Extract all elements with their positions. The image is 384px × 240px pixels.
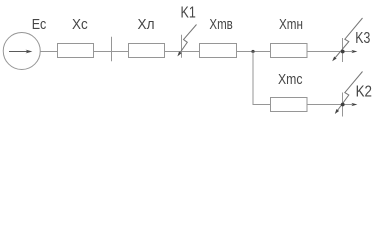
node tick K1 [181,35,183,58]
resistor Хтн [271,44,308,58]
svg-text:K1: K1 [181,5,196,22]
resistor Хтв [200,44,237,58]
wire [94,51,129,53]
wire [237,51,271,53]
wire branch down [253,52,271,105]
node tick K2 [342,93,344,117]
svg-text:K2: K2 [356,84,372,101]
wire with arrow to K2 [307,103,357,106]
wire [40,51,57,53]
junction node [251,50,254,53]
svg-text:Xmc: Xmc [278,71,303,88]
junction dot K2 [341,103,345,107]
svg-text:Ec: Ec [32,16,47,33]
resistor Хтс [271,98,308,112]
svg-text:Xmн: Xmн [279,16,303,33]
resistor Xc [58,44,94,58]
resistor Xл [129,44,165,58]
svg-text:Xc: Xc [72,16,88,33]
fault arrow K1 [177,25,196,57]
wire [165,51,200,53]
svg-text:Xmв: Xmв [209,16,232,33]
node tick [111,37,113,62]
svg-text:Xл: Xл [138,16,155,33]
wire with arrow to K3 [307,50,357,53]
source Ec [3,33,40,70]
fault arrow K2 [335,72,363,115]
node tick K3 [342,38,344,62]
fault arrow K3 [332,18,362,61]
svg-text:K3: K3 [355,30,370,47]
junction dot K3 [341,50,345,54]
